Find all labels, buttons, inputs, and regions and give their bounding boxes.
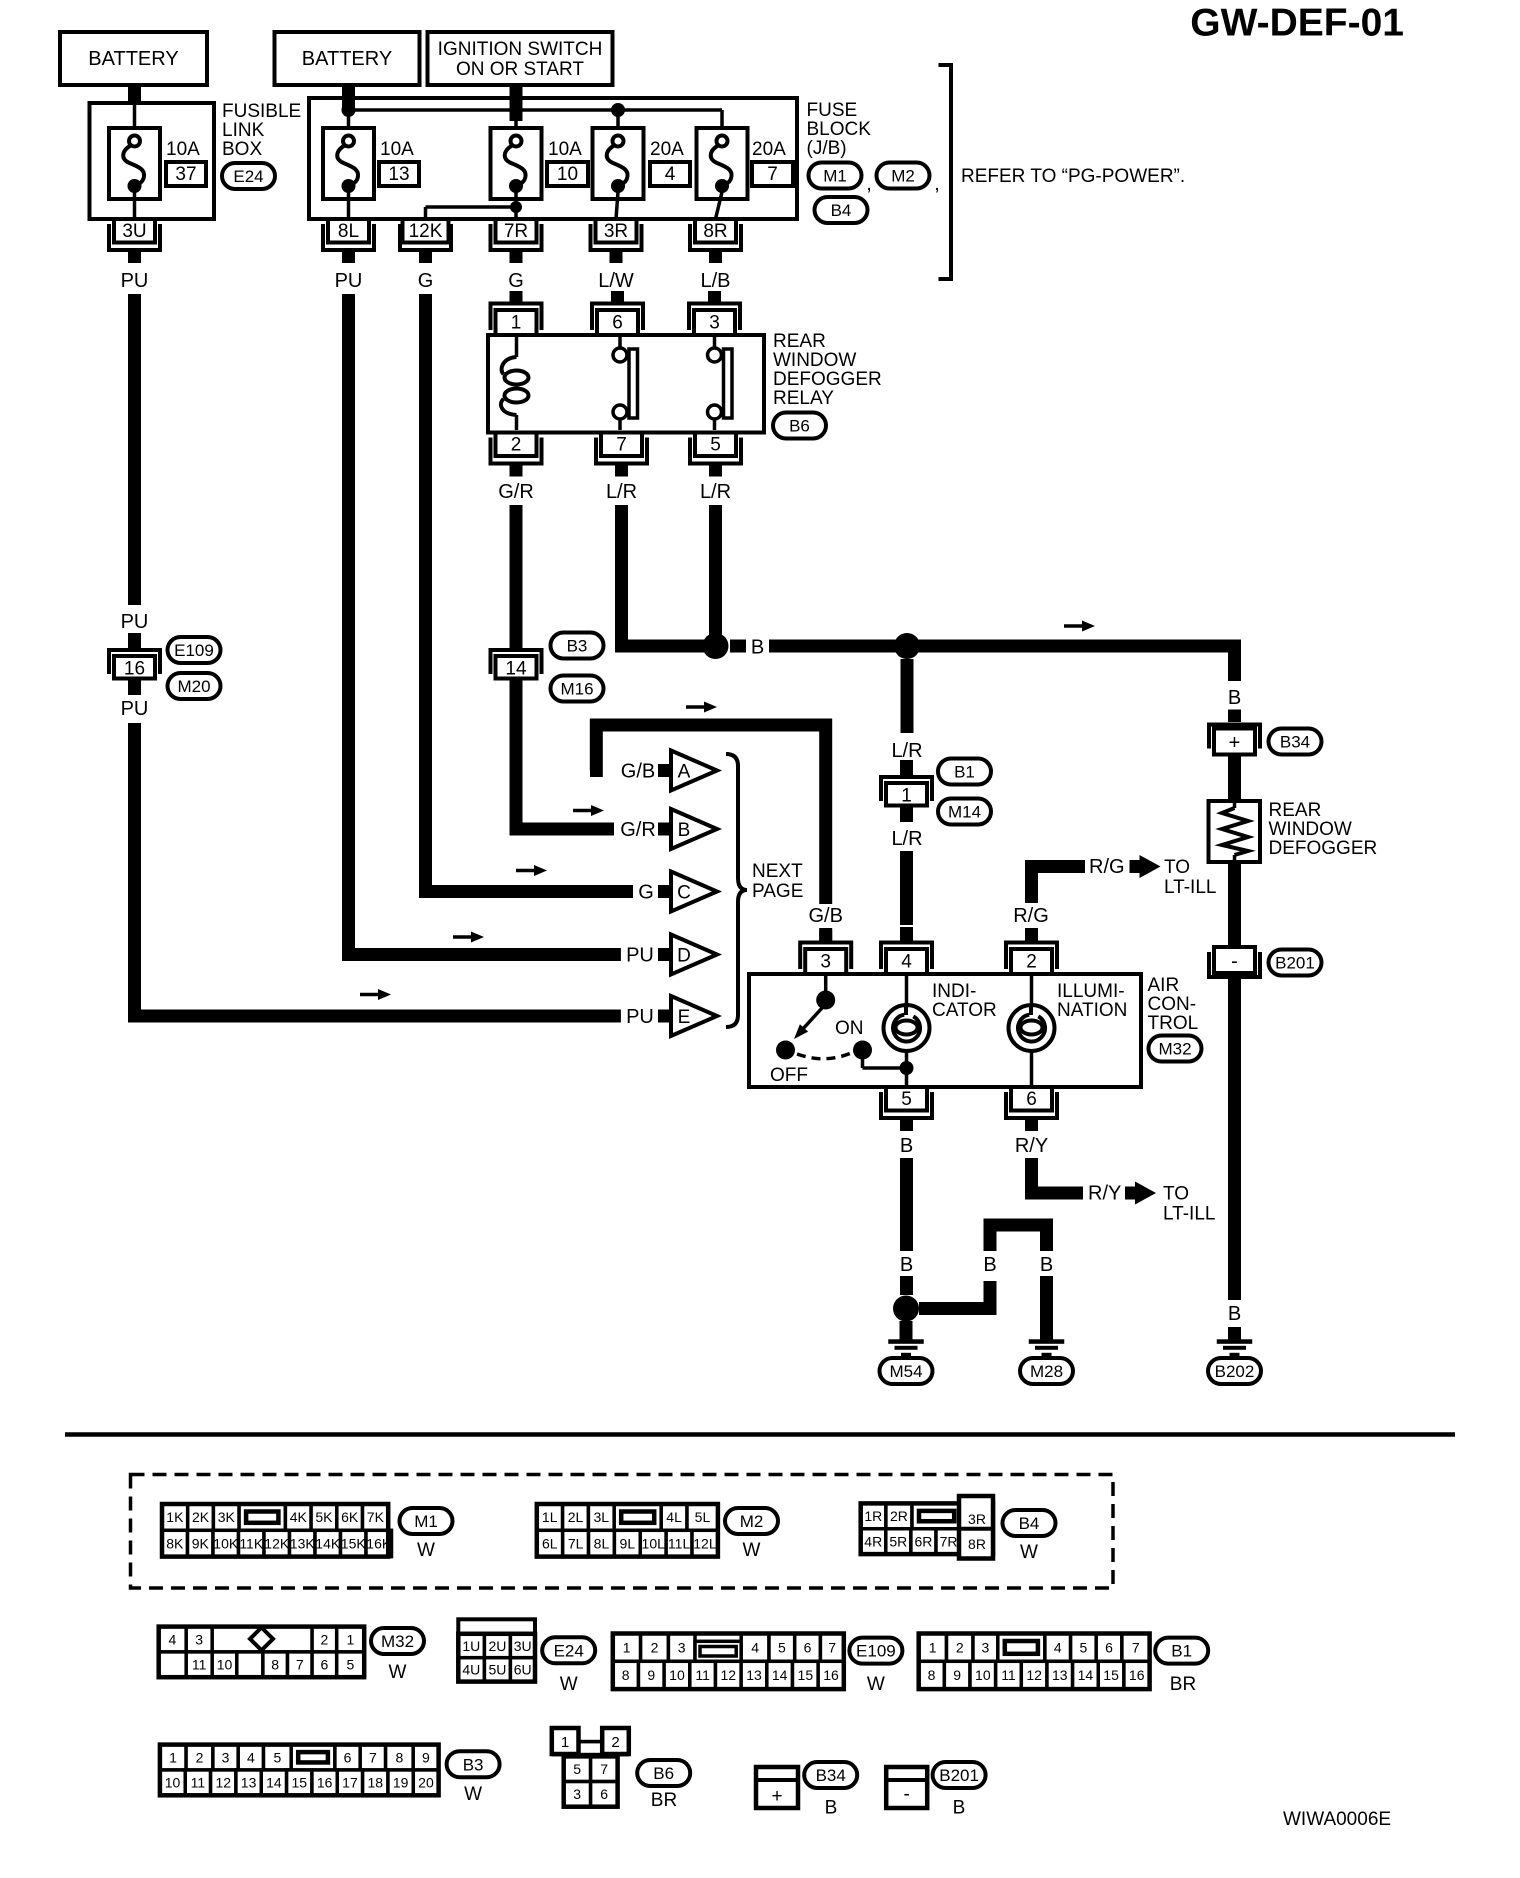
label TO LT-ILL lower [1163,1184,1215,1225]
svg-text:RELAY: RELAY [773,388,834,409]
svg-text:10K: 10K [213,1535,239,1551]
svg-text:W: W [867,1674,885,1695]
svg-text:L/R: L/R [700,481,731,503]
connector grid M32 [159,1627,365,1678]
svg-text:5: 5 [573,1761,581,1777]
svg-text:R/G: R/G [1013,905,1049,927]
switch OFF contact [776,1041,795,1060]
connector ref B201 bottom [933,1762,986,1819]
wire defogger minus [1228,862,1241,947]
svg-text:5: 5 [778,1639,786,1655]
svg-text:3: 3 [573,1786,581,1802]
svg-text:PAGE: PAGE [752,881,803,902]
label PU row D [626,945,654,967]
junction grounds [893,1296,919,1322]
svg-text:8: 8 [396,1749,404,1765]
terminal + B34 [1209,710,1260,755]
arrow C row [516,865,547,876]
svg-text:2L: 2L [568,1509,584,1525]
svg-text:4: 4 [1054,1639,1062,1655]
relay B6 box [488,335,764,433]
stub R/G air [1025,928,1038,941]
svg-text:M28: M28 [1030,1362,1063,1381]
title GW-DEF-01 [1190,2,1404,45]
svg-text:1: 1 [561,1734,569,1751]
connector ref M1 bottom [400,1508,453,1561]
terminal 8R [690,219,741,263]
stub A [658,764,671,777]
svg-text:6: 6 [600,1786,608,1802]
label ON [835,1018,864,1039]
wire L/R below junction [901,659,914,733]
svg-text:PU: PU [121,611,149,633]
svg-text:13: 13 [241,1775,257,1791]
wire fuse7 down [716,192,723,219]
fuse 7 20A [697,128,794,199]
svg-text:1K: 1K [166,1509,184,1525]
label G/R row B [620,819,656,841]
relay coil [501,337,529,430]
svg-text:10: 10 [217,1657,233,1673]
svg-text:10: 10 [557,164,578,185]
triangle C [671,872,717,912]
svg-text:10L: 10L [642,1535,666,1551]
connector grid M1 [162,1504,392,1557]
svg-text:1: 1 [169,1749,177,1765]
svg-text:G/B: G/B [621,761,655,783]
wire M28 down [1040,1276,1053,1340]
svg-text:7K: 7K [367,1509,385,1525]
svg-text:WIWA0006E: WIWA0006E [1283,1809,1391,1830]
svg-text:15: 15 [798,1667,814,1683]
svg-text:,: , [934,173,940,195]
svg-text:M1: M1 [823,167,847,186]
ignition switch box [428,32,613,85]
wire fuse4 down [616,192,618,219]
label INDICATOR [932,981,997,1021]
svg-text:4L: 4L [666,1509,682,1525]
svg-text:5U: 5U [488,1662,506,1678]
connector ref B4 bottom [1003,1510,1056,1563]
svg-text:9: 9 [953,1667,961,1683]
svg-text:3L: 3L [594,1509,610,1525]
label R/Y pin6 [1015,1135,1048,1157]
svg-text:B1: B1 [954,763,975,782]
label L/W [598,270,634,292]
label B mid [900,1254,913,1276]
svg-text:M14: M14 [948,803,981,822]
label R/G horizontal [1089,856,1125,878]
svg-text:3K: 3K [218,1509,236,1525]
svg-text:9: 9 [647,1667,655,1683]
svg-text:GW-DEF-01: GW-DEF-01 [1190,2,1404,45]
svg-text:WINDOW: WINDOW [1269,819,1352,840]
svg-text:L/B: L/B [700,270,730,292]
svg-text:G: G [638,882,654,904]
svg-text:B3: B3 [463,1755,484,1774]
svg-text:9: 9 [422,1749,430,1765]
wire G 12K down [426,294,634,892]
connector ref M20 [168,673,221,699]
terminal 3U [109,219,160,263]
svg-text:B201: B201 [1275,954,1315,973]
svg-text:B3: B3 [567,637,588,656]
svg-text:1L: 1L [542,1509,558,1525]
label PU row E [626,1006,654,1028]
svg-text:8K: 8K [166,1535,184,1551]
connector ref M2 bottom [725,1508,778,1561]
label WIWA0006E [1283,1809,1391,1830]
svg-text:14: 14 [505,658,527,679]
connector ref B1 [938,759,991,785]
connector ref M14 [938,799,991,825]
label G/R [498,481,534,503]
svg-text:BATTERY: BATTERY [88,48,178,70]
svg-text:B6: B6 [653,1764,674,1783]
svg-text:LINK: LINK [222,120,265,141]
terminal 3 relay [689,291,740,335]
svg-text:5R: 5R [889,1533,907,1549]
svg-text:11: 11 [192,1657,207,1673]
svg-text:3: 3 [678,1639,686,1655]
svg-text:3U: 3U [514,1638,532,1654]
svg-text:4: 4 [901,952,912,973]
connector ref B4 [815,197,868,223]
svg-text:7: 7 [296,1657,304,1673]
svg-text:4R: 4R [864,1533,882,1549]
svg-text:5: 5 [1080,1639,1088,1655]
indicator lamp [884,976,930,1085]
connector ref B3 bottom [447,1751,500,1805]
svg-text:3: 3 [222,1749,230,1765]
arrow to LT-ILL R/G [1130,855,1161,878]
svg-text:6R: 6R [914,1533,932,1549]
svg-text:W: W [464,1784,482,1805]
label L/R pin7 [606,481,637,503]
svg-text:M20: M20 [177,677,210,696]
svg-text:4: 4 [751,1639,759,1655]
wire R/G up [1032,860,1086,903]
wire PU 8L down [349,294,621,955]
label L/B [700,270,730,292]
svg-text:12: 12 [215,1775,231,1791]
junction B1 [703,633,747,659]
ground B202 [1217,1327,1253,1356]
connector ref B202 [1208,1358,1261,1384]
terminal 2 relay [491,433,542,477]
fuse block J/B box [309,98,797,219]
svg-text:FUSIBLE: FUSIBLE [222,101,301,122]
connector 14 B3/M16 [491,633,542,695]
svg-text:B6: B6 [789,417,810,436]
terminal 6 relay [592,291,643,335]
svg-text:BR: BR [1170,1674,1196,1695]
svg-text:PU: PU [626,1006,654,1028]
wire A feed [590,725,826,904]
svg-text:2: 2 [1026,952,1037,973]
svg-text:E24: E24 [554,1641,584,1660]
svg-text:REAR: REAR [1269,800,1322,821]
svg-text:7: 7 [369,1749,377,1765]
label ILLUMINATION [1057,981,1127,1021]
arrow E row [360,989,391,1000]
svg-text:TO: TO [1164,857,1190,878]
connector grid E24 [458,1619,535,1681]
connector ref B6 bottom [637,1760,690,1811]
svg-text:1: 1 [347,1631,355,1647]
terminal 6 air control [1006,1087,1057,1131]
svg-text:16: 16 [1129,1667,1145,1683]
terminal 7R [491,219,542,263]
label G/B row A [621,761,655,783]
svg-text:1: 1 [511,313,522,334]
connector cell B34 bottom [756,1767,798,1808]
svg-text:PU: PU [626,945,654,967]
svg-text:-: - [1231,951,1238,973]
svg-text:5: 5 [273,1749,281,1765]
svg-text:OFF: OFF [770,1065,808,1086]
svg-text:G/R: G/R [620,819,656,841]
label B right leg [1040,1254,1053,1276]
svg-text:G: G [418,270,434,292]
switch ON contact [853,1041,872,1060]
svg-text:1: 1 [901,785,912,806]
brace next page [726,754,747,1027]
svg-text:12K: 12K [264,1535,290,1551]
connector 1 B1/M14 [881,760,932,822]
svg-text:10: 10 [975,1667,991,1683]
fuse 13 10A [323,128,419,199]
bracket refer note [939,63,954,281]
svg-text:12K: 12K [409,221,443,242]
connector ref M2 [877,163,940,196]
svg-text:13: 13 [1052,1667,1068,1683]
svg-text:4U: 4U [462,1662,480,1678]
connector grid B3 [160,1745,439,1796]
svg-text:D: D [677,946,691,967]
svg-text:11: 11 [695,1667,710,1683]
relay contact 1 [613,337,638,430]
svg-text:15: 15 [291,1775,307,1791]
svg-text:E109: E109 [174,641,214,660]
arrow B wire [1064,621,1095,632]
switch common [816,976,835,1010]
svg-text:7R: 7R [504,221,528,242]
svg-text:8R: 8R [703,221,727,242]
svg-text:1: 1 [623,1639,631,1655]
label TO LT-ILL upper [1164,857,1216,898]
svg-text:ON: ON [835,1018,864,1039]
wire to fuse 37 [133,104,137,136]
svg-text:NATION: NATION [1057,1000,1127,1021]
fuse 37 10A [109,128,206,199]
svg-text:NEXT: NEXT [752,861,803,882]
svg-text:B: B [751,637,764,659]
svg-text:B: B [983,1254,996,1276]
svg-text:2: 2 [956,1639,964,1655]
svg-text:16: 16 [823,1667,839,1683]
svg-text:LT-ILL: LT-ILL [1164,877,1216,898]
label G 7R [508,270,524,292]
svg-text:2R: 2R [890,1508,908,1524]
svg-text:INDI-: INDI- [932,981,976,1002]
svg-text:15: 15 [1103,1667,1119,1683]
wire bus battery feed [349,110,723,136]
junction indicator [900,1061,914,1075]
svg-text:6: 6 [612,313,623,334]
connector grid B6 [552,1728,629,1807]
svg-text:3: 3 [820,952,831,973]
stub B [658,823,671,836]
wire fuse13 down [347,192,351,219]
svg-text:W: W [560,1674,578,1695]
switch dashed travel [797,1053,851,1059]
connector grid E109 [613,1634,844,1690]
svg-text:6: 6 [1026,1089,1037,1110]
ground M54 [888,1321,924,1356]
svg-text:LT-ILL: LT-ILL [1163,1204,1215,1225]
wire G/R down [510,505,523,633]
svg-text:CON-: CON- [1148,994,1197,1015]
svg-text:B: B [678,820,691,841]
arrow to LT-ILL R/Y [1125,1182,1156,1205]
svg-text:3: 3 [982,1639,990,1655]
svg-text:10A: 10A [166,139,200,160]
switch arm arrow [794,1008,822,1039]
svg-text:M2: M2 [891,167,915,186]
stub E [658,1010,671,1023]
svg-text:REAR: REAR [773,331,826,352]
svg-text:11L: 11L [668,1535,691,1551]
svg-text:13: 13 [388,164,409,185]
svg-text:B: B [825,1798,838,1819]
svg-text:(J/B): (J/B) [807,138,847,159]
connector ref B34 [1269,729,1322,755]
svg-text:20: 20 [418,1775,434,1791]
triangle A [671,751,717,791]
svg-text:B: B [953,1798,966,1819]
connector ref E24 bottom [542,1637,595,1695]
svg-text:2K: 2K [192,1509,210,1525]
connector ref M32 [1149,1036,1202,1062]
svg-text:10A: 10A [380,139,414,160]
svg-text:5K: 5K [315,1509,333,1525]
svg-text:L/R: L/R [891,740,922,762]
terminal 4 air control [881,930,932,974]
label G row C [638,882,654,904]
terminal 1 relay [491,291,542,335]
svg-text:3R: 3R [604,221,628,242]
wire B to B202 [1228,991,1241,1300]
svg-text:7: 7 [1132,1639,1140,1655]
svg-text:B: B [1228,1303,1241,1325]
svg-text:TO: TO [1163,1184,1189,1205]
label L/R upper [891,740,922,762]
svg-text:37: 37 [175,164,196,185]
terminal - B201 [1209,947,1260,991]
svg-text:14: 14 [1078,1667,1094,1683]
svg-text:ON OR START: ON OR START [456,59,584,80]
svg-text:W: W [389,1662,407,1683]
label AIR CONTROL [1148,975,1199,1034]
wire L/R pin5 [709,505,722,646]
wire battery2 stub [342,85,355,111]
svg-text:16: 16 [124,658,145,679]
svg-text:2: 2 [511,435,522,456]
connector ref B34 bottom [804,1762,857,1819]
connector grid M2 [537,1504,718,1557]
svg-text:M54: M54 [889,1362,922,1381]
label OFF [770,1065,808,1086]
svg-text:BLOCK: BLOCK [807,119,872,140]
svg-text:4K: 4K [290,1509,308,1525]
label G/B air [808,905,842,927]
triangle D [671,935,717,975]
svg-text:3: 3 [709,313,720,334]
svg-text:B: B [900,1135,913,1157]
svg-text:B: B [900,1254,913,1276]
junction B2 [894,633,920,659]
svg-text:6L: 6L [542,1535,558,1551]
svg-text:14K: 14K [315,1535,341,1551]
connector ref M1 [809,163,872,196]
wire fuse37 to 3U [133,192,137,219]
svg-text:8: 8 [271,1657,279,1673]
arrow B row [573,805,604,816]
connector ref E109 [168,637,221,663]
svg-text:4: 4 [665,164,676,185]
label FUSIBLE LINK BOX [222,101,301,160]
svg-text:7: 7 [828,1639,836,1655]
svg-text:14: 14 [772,1667,788,1683]
svg-text:8L: 8L [338,221,359,242]
svg-text:G/R: G/R [498,481,534,503]
connector ref M54 [880,1358,933,1384]
svg-text:20A: 20A [752,139,786,160]
triangle B [671,809,717,849]
svg-text:7L: 7L [568,1535,584,1551]
svg-text:E24: E24 [233,167,263,186]
svg-text:B34: B34 [1280,733,1310,752]
connector ref M16 [551,676,604,702]
svg-text:M1: M1 [414,1512,438,1531]
svg-text:6: 6 [804,1639,812,1655]
label L/R pin5 [700,481,731,503]
wire ON to indicator [863,1058,907,1068]
svg-text:10A: 10A [548,139,582,160]
svg-text:10: 10 [165,1775,181,1791]
connector ref E24 [222,163,275,189]
wire to ground junction [900,1276,913,1295]
fuse 10 10A [491,128,589,199]
svg-text:12: 12 [1026,1667,1042,1683]
svg-text:18: 18 [368,1775,384,1791]
svg-text:7R: 7R [940,1533,958,1549]
label B left leg [983,1254,996,1276]
label R/G vertical [1013,905,1049,927]
svg-text:M32: M32 [1158,1040,1191,1059]
svg-text:CATOR: CATOR [932,1000,997,1021]
label R/Y horizontal [1088,1183,1121,1205]
svg-text:BATTERY: BATTERY [302,48,392,70]
battery B1 box [60,32,207,85]
svg-text:2U: 2U [488,1638,506,1654]
wire G/R to B [516,695,614,829]
svg-text:8L: 8L [594,1535,610,1551]
wire PU E row [135,723,621,1016]
svg-text:14: 14 [266,1775,282,1791]
svg-text:3U: 3U [122,221,146,242]
